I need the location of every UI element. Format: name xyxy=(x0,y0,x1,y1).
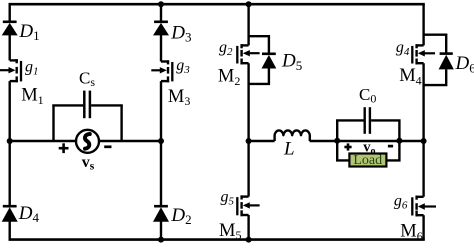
diode D3 xyxy=(153,22,169,36)
wire Cs top right xyxy=(91,104,123,106)
node rail3 mid junction xyxy=(246,138,252,144)
node top rail3 junction xyxy=(246,1,252,7)
wire middle left (rail to source +) xyxy=(10,140,76,142)
wire C0 left bracket xyxy=(337,120,363,141)
load box xyxy=(349,153,386,168)
capacitor Cs xyxy=(84,91,90,119)
wire D6 branch top xyxy=(424,35,447,53)
diode D2 xyxy=(153,206,169,222)
source vs sine glyph xyxy=(85,134,90,149)
mosfet M1 xyxy=(0,59,21,82)
wire rail4 bottom segment xyxy=(422,215,424,239)
wire inductor input segment xyxy=(249,140,275,142)
node bottom rail3 junction xyxy=(246,237,252,243)
diode D6 xyxy=(439,54,454,70)
wire bottom bus xyxy=(9,238,425,241)
wire rail2 mid segment xyxy=(160,81,162,206)
wire left rail bottom segment xyxy=(8,221,10,239)
wire output node span xyxy=(337,140,399,142)
node left rail mid junction xyxy=(7,138,13,144)
node output - junction xyxy=(396,138,402,144)
wire left rail mid segment xyxy=(8,81,10,206)
wire inductor to output node xyxy=(310,140,338,142)
wire rail4 mid segment xyxy=(422,63,424,197)
node top rail2 junction xyxy=(158,1,164,7)
wire load left bracket xyxy=(337,141,349,160)
wire load right bracket xyxy=(386,141,399,160)
node rail4 mid junction xyxy=(421,138,427,144)
wire rail3 mid segment xyxy=(247,63,249,196)
wire D6 branch bottom xyxy=(424,69,447,85)
wire rail3 bottom segment xyxy=(247,215,249,240)
wire D3-to-M3 segment xyxy=(160,35,162,62)
wire rail4 top segment xyxy=(422,4,424,45)
wire Cs right stub xyxy=(120,105,122,141)
label - (vo polarity) xyxy=(388,145,393,148)
label + (vo polarity) xyxy=(344,143,351,150)
mosfet M3 xyxy=(151,60,172,82)
mosfet M5 xyxy=(237,195,259,216)
mosfet M2 xyxy=(237,44,259,64)
label + (vs polarity) xyxy=(59,143,69,153)
wire top bus xyxy=(9,3,425,6)
svg-text:L: L xyxy=(283,139,295,160)
wire left rail top segment xyxy=(8,4,10,20)
diode D4 xyxy=(2,206,18,222)
wire rail3 top segment xyxy=(247,4,249,45)
diode D5 xyxy=(262,54,277,69)
capacitor C0 xyxy=(365,107,370,134)
wire middle left (source - to rail2) xyxy=(99,140,161,142)
diode D1 xyxy=(2,22,18,36)
wire D5 branch bottom xyxy=(249,69,269,84)
label - (vs polarity) xyxy=(104,145,111,148)
wire Cs left stub xyxy=(52,105,54,141)
wire rail2 bottom segment xyxy=(160,221,162,239)
node rail2 mid junction xyxy=(158,138,164,144)
wire output to rail4 xyxy=(399,140,423,142)
wire C0 right bracket xyxy=(371,120,399,141)
wire D5 branch top xyxy=(249,36,269,53)
diode D1 cathode-to-M1 wire xyxy=(8,35,10,60)
wire rail2 top segment xyxy=(160,4,162,21)
inductor L xyxy=(275,130,310,141)
mosfet M6 xyxy=(412,196,436,217)
wire Cs top left xyxy=(52,104,83,106)
mosfet M4 xyxy=(412,44,435,64)
node bottom rail2 junction xyxy=(158,237,164,243)
node output + junction xyxy=(334,138,340,144)
source vs circle xyxy=(76,130,99,153)
